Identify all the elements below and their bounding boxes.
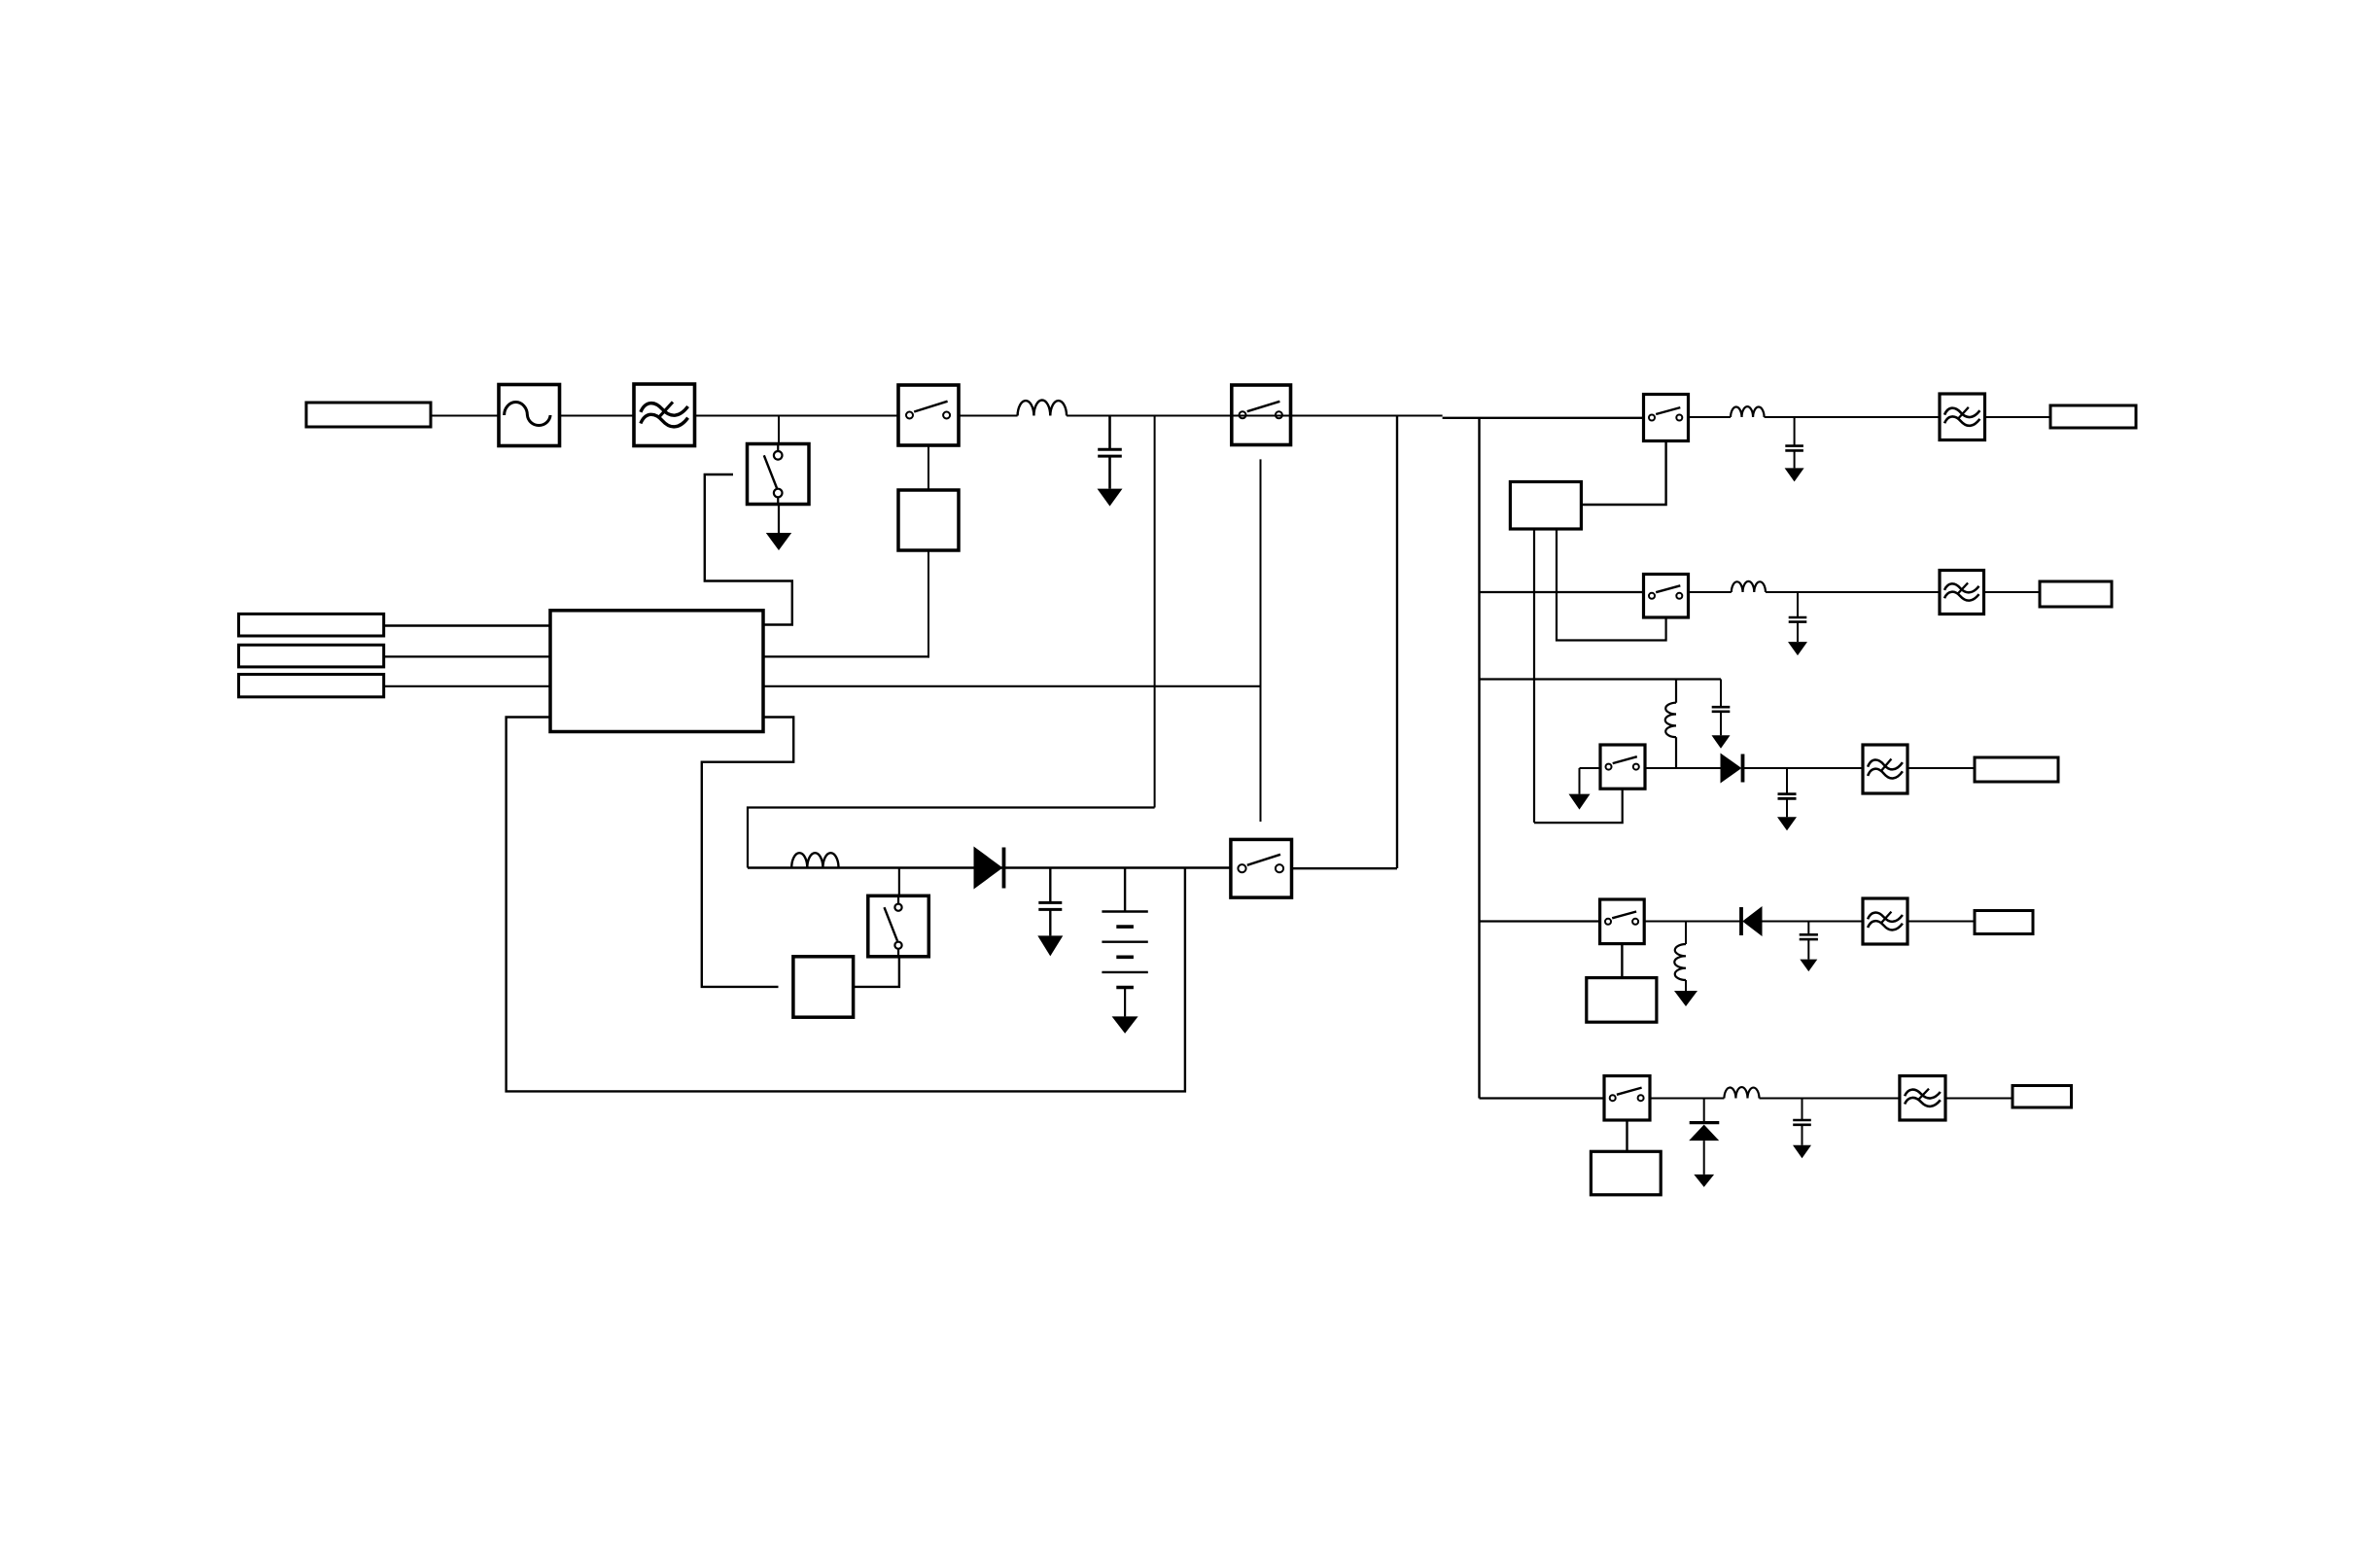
capacitor C2 to ground (1794, 417, 1796, 446)
charger bus to node C (1292, 867, 1398, 869)
control wire below K2 (1260, 459, 1262, 822)
wire K1 to L1 (959, 415, 1018, 417)
row5 bus from node D (1480, 1097, 1605, 1099)
wire K5 coil to A2 control line (1534, 789, 1623, 823)
wire A1 to U5 output 2 (927, 550, 929, 658)
capacitor C6 to ground (1807, 922, 1809, 935)
wire J1 to U1 (431, 415, 499, 417)
terminal X3 (239, 675, 384, 697)
wire node A down to S1 (778, 416, 780, 445)
wire X3 to U5 (384, 685, 550, 687)
switch K2 (1232, 385, 1291, 445)
wire U5 to A5 control path (702, 718, 793, 987)
EMI filter FL1 (634, 384, 695, 446)
row3 bus D1 to FL4 (1744, 767, 1864, 769)
wire U1 to FL1 (560, 415, 635, 417)
switch S2 (868, 895, 929, 957)
ground below S1 (778, 505, 780, 534)
inductor L4 top lead (1675, 680, 1677, 703)
diode D1 (1721, 755, 1741, 783)
row1 bus to FL2 (1765, 416, 1940, 418)
control line A2 down to row3 (1533, 529, 1535, 823)
terminal P3 (1975, 757, 2058, 782)
wire U5 left output to battery return loop (507, 718, 1185, 1092)
switch K5 (1600, 745, 1645, 789)
terminal J1 AC input connector (306, 403, 431, 427)
relay driver A4 (1591, 1151, 1661, 1195)
ground stub left of K5 (1580, 767, 1601, 769)
row4 bus from node D (1480, 920, 1600, 922)
wire U5 output 3 to K2 control line (763, 685, 1261, 687)
filter FL2 (1940, 394, 1985, 440)
row3 bus K5 to D1 (1645, 767, 1721, 769)
wire FL5 to P4 (1907, 921, 1975, 923)
wire U5 output 2 to A1 (763, 655, 928, 657)
relay driver A2 (1510, 482, 1581, 530)
wire FL6 to P5 (1945, 1098, 2012, 1100)
wire charger bus down to S2 (898, 868, 900, 896)
terminal P4 (1975, 911, 2033, 934)
wire FL3 to P2 (1984, 591, 2042, 593)
wire node D down-feed V3 (1478, 418, 1480, 1099)
wire U5 pin1 path toward S1 (705, 474, 792, 625)
battery BT1 (1102, 868, 1147, 988)
wire FL1 to K1 with tap at node A (695, 415, 899, 417)
wire node B to charger row (748, 808, 1155, 868)
switch K6 (1600, 899, 1645, 944)
capacitor C4 to ground (1720, 680, 1722, 708)
filter FL5 (1863, 898, 1907, 944)
inductor L5 (1674, 944, 1686, 980)
inductor L4 (1665, 703, 1676, 738)
row2 bus to FL3 (1766, 591, 1940, 593)
inductor L2 (1731, 406, 1765, 417)
filter FL6 (1900, 1076, 1945, 1121)
diode D3 (anode to ground) (1689, 1099, 1719, 1187)
wire FL4 to P3 (1907, 767, 1975, 769)
inductor L5 top lead (1685, 922, 1687, 945)
terminal P1 (2050, 405, 2136, 428)
diode D2 (1739, 907, 1743, 935)
capacitor C7 to ground (1802, 1099, 1803, 1121)
switch K8 (1231, 839, 1292, 897)
inductor L1 (1018, 401, 1067, 416)
terminal X1 (239, 614, 384, 636)
wire X2 to U5 (384, 655, 550, 657)
capacitor C8 to ground (1049, 868, 1051, 903)
terminal P2 (2040, 581, 2112, 607)
inductor L3 (1732, 581, 1766, 592)
ground below L5 (1685, 980, 1687, 991)
wire A2 to K4 coil (1557, 529, 1666, 641)
row4 bus K6 to D2 (1644, 921, 1741, 923)
coil driver A1 (898, 490, 959, 550)
wire K1 to A1 (927, 445, 929, 490)
contactor K1 (898, 385, 959, 445)
wire X1 to U5 (384, 624, 550, 627)
main bus right segment (1443, 417, 1644, 419)
diode D4 (974, 848, 1002, 889)
wire FL2 to P1 (1985, 416, 2051, 418)
row5 bus L6 to FL6 (1760, 1098, 1900, 1100)
inductor L6 (1724, 1087, 1759, 1098)
ground left of K5 (1579, 768, 1581, 794)
AC source block U1 (499, 385, 560, 446)
wire S2 to A5 (854, 957, 899, 987)
row4 bus D2 to FL5 (1762, 921, 1863, 923)
wire K6 to A3 (1621, 944, 1623, 978)
charger bus (748, 866, 1231, 868)
switch K4 (1644, 575, 1689, 618)
capacitor C3 to ground (1797, 592, 1799, 617)
ground below BT1 (1124, 987, 1126, 1016)
wire K4 to L3 (1689, 591, 1732, 593)
wire K3 to L2 (1689, 416, 1732, 418)
capacitor C5 to ground (1786, 768, 1788, 794)
switch K3 (1644, 395, 1689, 441)
relay driver A3 (1587, 978, 1657, 1023)
inductor L4 bottom lead (1675, 737, 1677, 768)
charge controller A5 (793, 957, 854, 1017)
terminal P5 (2012, 1086, 2072, 1108)
main bus after L1 (1067, 415, 1443, 417)
wire node B down-feed V1 (1154, 416, 1156, 808)
row5 bus K7 to L6 (1650, 1098, 1724, 1100)
terminal X2 (239, 645, 384, 667)
wire node C down-feed V2 (1396, 416, 1398, 869)
switch K7 (1604, 1076, 1650, 1121)
inductor L7 (791, 853, 838, 867)
filter FL4 (1863, 745, 1907, 793)
filter FL3 (1940, 571, 1984, 614)
row2 bus from node D (1480, 591, 1644, 593)
row3 feed line from node D (1480, 678, 1722, 680)
wire K7 to A4 (1626, 1120, 1627, 1151)
controller U5 (550, 611, 763, 732)
wire A2 to K3 coil (1581, 441, 1665, 506)
switch S1 (to ground) (748, 444, 810, 505)
capacitor C1 to ground (1108, 416, 1111, 450)
